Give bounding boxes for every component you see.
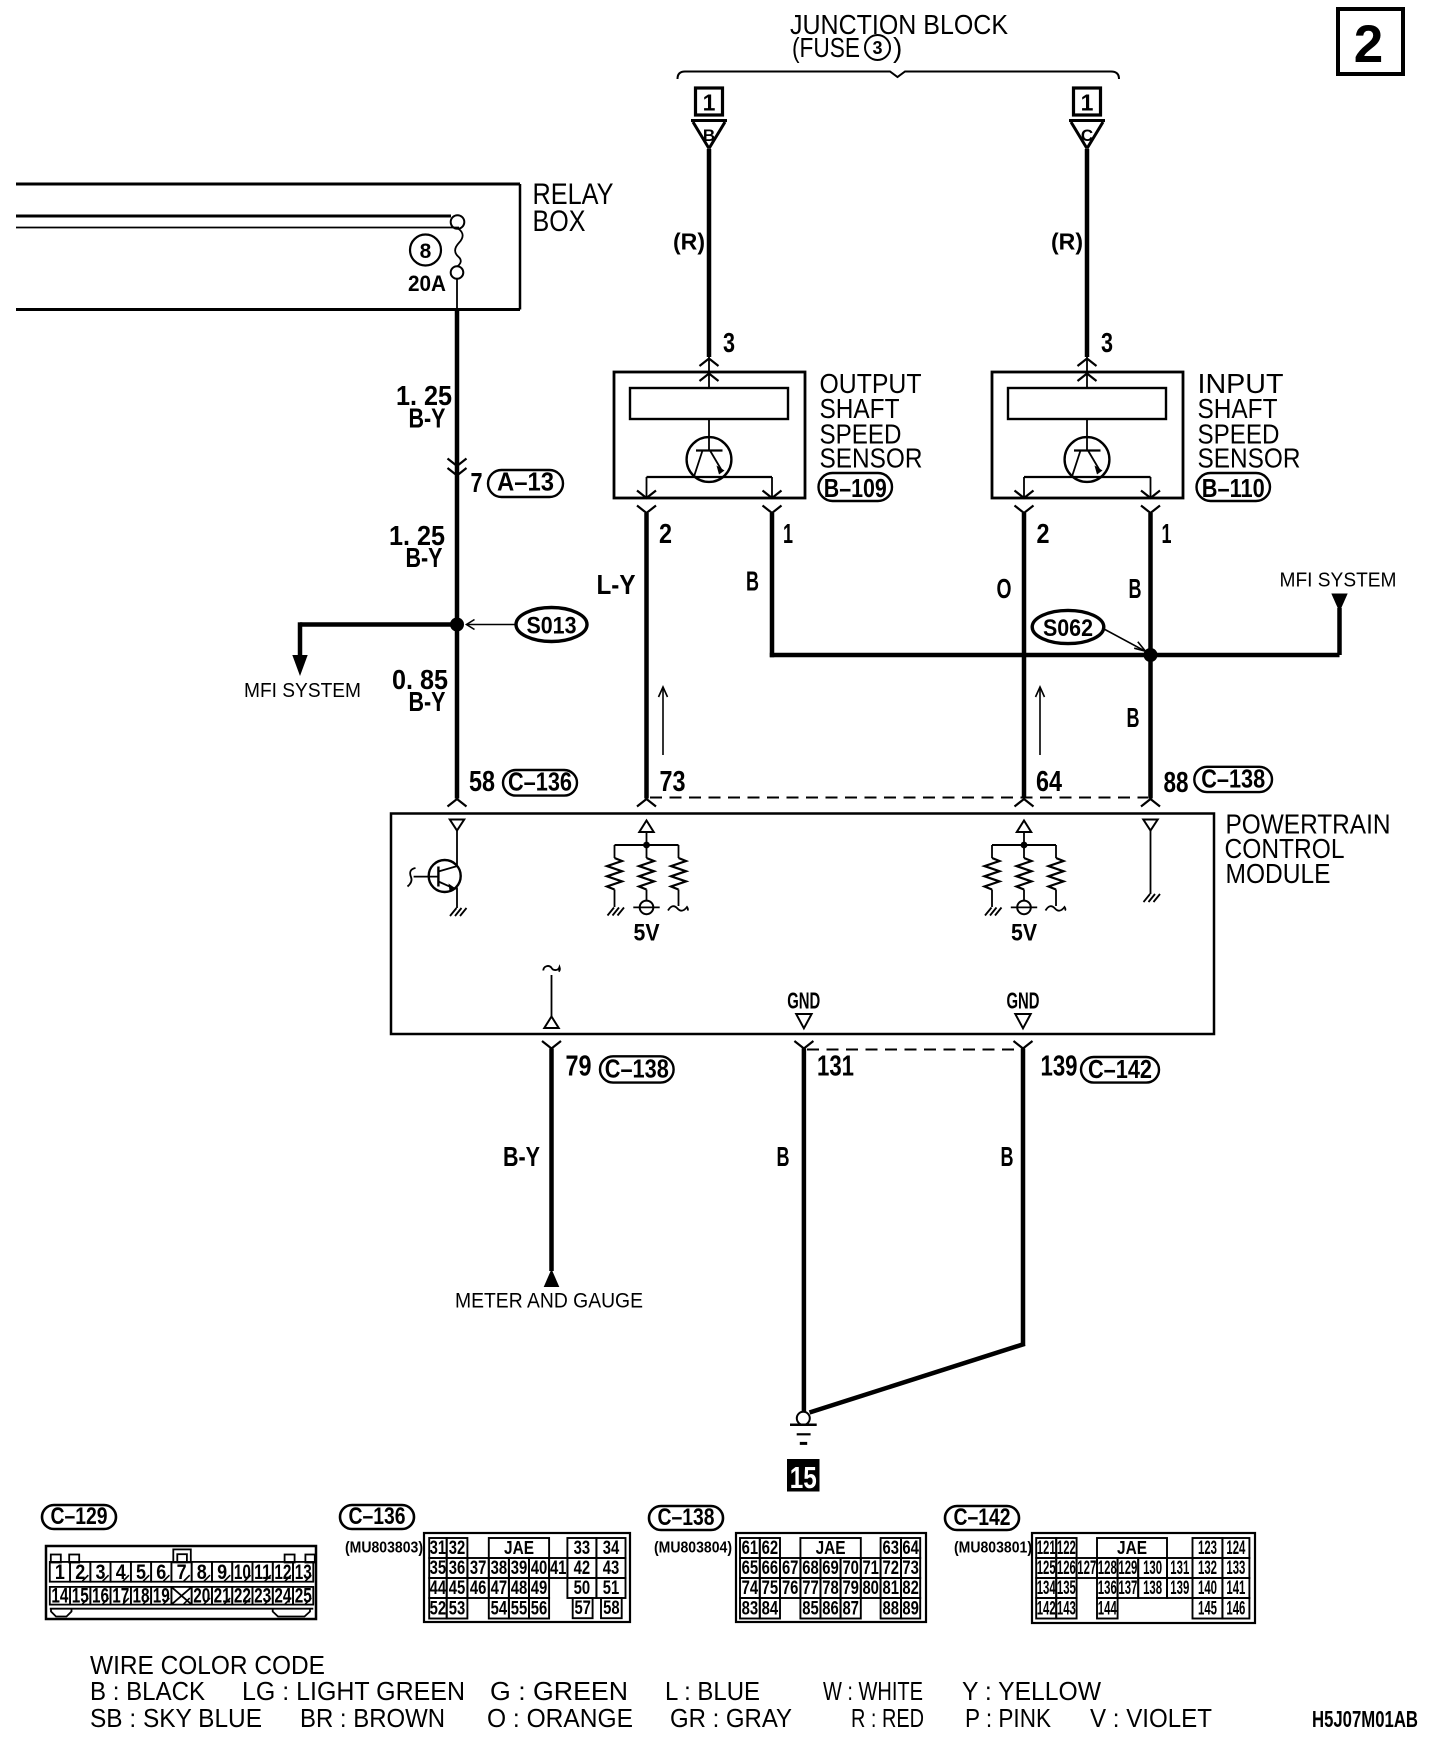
svg-text:17: 17 bbox=[112, 1585, 129, 1608]
connector C-138 label bbox=[649, 1504, 723, 1531]
svg-text:129: 129 bbox=[1118, 1557, 1137, 1579]
wire B pin 139 to ground bbox=[1021, 1049, 1026, 1346]
arrow from S013 to junction bbox=[467, 624, 516, 626]
svg-text:B : BLACK: B : BLACK bbox=[90, 1676, 206, 1706]
relay box bus bar lower bbox=[16, 227, 459, 229]
pin 64 fork bbox=[1015, 799, 1034, 807]
output sensor pin 2 connector forks bbox=[637, 491, 656, 499]
connector label B-109 bbox=[819, 473, 893, 503]
svg-text:C–129: C–129 bbox=[51, 1503, 108, 1530]
svg-text:G : GREEN: G : GREEN bbox=[490, 1676, 628, 1706]
relay box bbox=[16, 184, 520, 310]
diagonal wire pin139 to ground point bbox=[810, 1344, 1025, 1413]
svg-text:138: 138 bbox=[1143, 1577, 1162, 1599]
svg-text:72: 72 bbox=[883, 1557, 900, 1579]
svg-text:23: 23 bbox=[254, 1585, 271, 1608]
svg-text:64: 64 bbox=[902, 1537, 919, 1559]
svg-text:B-Y: B-Y bbox=[409, 686, 446, 717]
svg-text:2: 2 bbox=[1037, 518, 1050, 549]
svg-text:2: 2 bbox=[1354, 15, 1383, 74]
arrow from S062 to junction bbox=[1104, 629, 1144, 651]
input shaft speed sensor box bbox=[992, 372, 1183, 498]
svg-text:137: 137 bbox=[1118, 1577, 1137, 1599]
svg-text:57: 57 bbox=[574, 1597, 591, 1619]
node S062 junction dot bbox=[1144, 648, 1158, 662]
powertrain control module box bbox=[391, 814, 1214, 1035]
svg-text:37: 37 bbox=[470, 1557, 487, 1579]
svg-text:70: 70 bbox=[842, 1557, 859, 1579]
svg-text:B–110: B–110 bbox=[1202, 473, 1265, 503]
svg-text:3: 3 bbox=[723, 327, 735, 358]
wire B pin 131 to ground bbox=[802, 1049, 807, 1413]
svg-text:143: 143 bbox=[1057, 1597, 1076, 1619]
wire color code legend bbox=[90, 1650, 1212, 1733]
svg-text:S062: S062 bbox=[1043, 615, 1093, 642]
svg-text:JAE: JAE bbox=[1117, 1538, 1147, 1558]
svg-text:12: 12 bbox=[274, 1561, 291, 1584]
svg-text:18: 18 bbox=[133, 1585, 150, 1608]
svg-text:(FUSE: (FUSE bbox=[792, 32, 860, 63]
connector label A-13 bbox=[488, 467, 563, 498]
svg-text:BR : BROWN: BR : BROWN bbox=[300, 1703, 445, 1733]
svg-text:3: 3 bbox=[872, 38, 882, 58]
svg-text:B-Y: B-Y bbox=[406, 542, 443, 573]
C-129 connector drawing bbox=[46, 1546, 316, 1619]
arrow to METER AND GAUGE bbox=[544, 1269, 560, 1287]
input sensor label bbox=[1198, 368, 1301, 474]
svg-text:15: 15 bbox=[72, 1585, 89, 1608]
svg-text:GND: GND bbox=[787, 988, 820, 1014]
svg-text:133: 133 bbox=[1226, 1557, 1245, 1579]
svg-text:(R): (R) bbox=[1051, 229, 1083, 255]
svg-text:34: 34 bbox=[603, 1537, 620, 1559]
wire 0.85 B-Y from S013 to PCM pin 58 bbox=[455, 625, 460, 799]
svg-text:69: 69 bbox=[822, 1557, 839, 1579]
PCM pin 88 input triangle bbox=[1143, 820, 1157, 831]
svg-text:55: 55 bbox=[511, 1597, 528, 1619]
svg-text:48: 48 bbox=[511, 1577, 528, 1599]
svg-text:142: 142 bbox=[1037, 1597, 1056, 1619]
svg-text:O : ORANGE: O : ORANGE bbox=[487, 1703, 633, 1733]
svg-text:77: 77 bbox=[802, 1577, 819, 1599]
svg-text:SENSOR: SENSOR bbox=[1198, 443, 1301, 474]
svg-text:44: 44 bbox=[430, 1577, 447, 1599]
svg-text:C–136: C–136 bbox=[508, 767, 572, 797]
chassis ground 15 bbox=[790, 1412, 817, 1444]
dashed connector boundary C-138/C-142 bottom bbox=[807, 1049, 1020, 1051]
svg-text:SB : SKY BLUE: SB : SKY BLUE bbox=[90, 1703, 262, 1733]
svg-text:C: C bbox=[1081, 126, 1093, 145]
svg-text:5V: 5V bbox=[1011, 920, 1037, 947]
svg-text:(MU803801): (MU803801) bbox=[954, 1540, 1032, 1557]
svg-text:32: 32 bbox=[449, 1537, 466, 1559]
svg-text:7: 7 bbox=[471, 467, 483, 498]
svg-text:1: 1 bbox=[1081, 90, 1094, 116]
svg-text:79: 79 bbox=[842, 1577, 859, 1599]
svg-text:JAE: JAE bbox=[816, 1538, 846, 1558]
svg-text:122: 122 bbox=[1057, 1537, 1076, 1559]
svg-text:141: 141 bbox=[1226, 1577, 1245, 1599]
output sensor pin 1 connector forks bbox=[763, 491, 782, 499]
svg-text:83: 83 bbox=[742, 1597, 759, 1619]
svg-text:85: 85 bbox=[802, 1597, 819, 1619]
fuse 8 20A bbox=[408, 215, 464, 296]
svg-text:54: 54 bbox=[491, 1597, 508, 1619]
connector label B-110 bbox=[1197, 473, 1271, 503]
inline connector A-13 chevrons bbox=[448, 459, 467, 467]
svg-text:79: 79 bbox=[566, 1051, 592, 1083]
ground point number 15 bbox=[787, 1459, 820, 1495]
svg-text:8: 8 bbox=[420, 240, 432, 263]
svg-text:89: 89 bbox=[902, 1597, 919, 1619]
svg-text:(MU803803): (MU803803) bbox=[345, 1540, 423, 1557]
wire pin58 to transistor bbox=[456, 831, 458, 867]
svg-text:SENSOR: SENSOR bbox=[820, 443, 923, 474]
svg-text:B: B bbox=[777, 1141, 790, 1172]
svg-text:68: 68 bbox=[802, 1557, 819, 1579]
svg-text:JAE: JAE bbox=[504, 1538, 534, 1558]
connector C-142 label bbox=[945, 1504, 1019, 1531]
svg-text:14: 14 bbox=[51, 1585, 68, 1608]
connector C-136 label bbox=[340, 1503, 414, 1530]
svg-text:73: 73 bbox=[902, 1557, 919, 1579]
svg-text:66: 66 bbox=[762, 1557, 779, 1579]
svg-text:C–142: C–142 bbox=[1088, 1054, 1152, 1084]
svg-text:(R): (R) bbox=[673, 229, 705, 255]
svg-text:132: 132 bbox=[1198, 1557, 1217, 1579]
pin 58 fork bbox=[448, 799, 467, 807]
svg-text:130: 130 bbox=[1143, 1557, 1162, 1579]
pin 79 fork bbox=[542, 1041, 561, 1049]
svg-text:): ) bbox=[893, 32, 902, 63]
svg-text:3: 3 bbox=[1101, 327, 1113, 358]
ground hatch pin58 transistor bbox=[450, 908, 457, 916]
svg-text:42: 42 bbox=[574, 1557, 591, 1579]
PCM label bbox=[1225, 809, 1391, 890]
svg-text:127: 127 bbox=[1077, 1557, 1096, 1579]
svg-text:80: 80 bbox=[862, 1577, 879, 1599]
wire (R) from junction C to input sensor pin 3 bbox=[1085, 149, 1090, 357]
svg-text:C–138: C–138 bbox=[658, 1504, 715, 1531]
svg-text:39: 39 bbox=[511, 1557, 528, 1579]
svg-text:145: 145 bbox=[1198, 1597, 1217, 1619]
svg-text:16: 16 bbox=[92, 1585, 109, 1608]
svg-text:56: 56 bbox=[531, 1597, 548, 1619]
wire B-Y pin 79 to meter and gauge bbox=[549, 1049, 554, 1272]
svg-text:C–142: C–142 bbox=[954, 1504, 1011, 1531]
svg-text:C–138: C–138 bbox=[605, 1054, 669, 1084]
svg-text:121: 121 bbox=[1037, 1537, 1056, 1559]
svg-text:H5J07M01AB: H5J07M01AB bbox=[1312, 1706, 1418, 1732]
svg-text:40: 40 bbox=[531, 1557, 548, 1579]
wire L-Y output sensor pin2 to PCM pin 73 bbox=[644, 513, 649, 799]
svg-text:81: 81 bbox=[883, 1577, 900, 1599]
svg-text:43: 43 bbox=[603, 1557, 620, 1579]
junction block connector 1-B bbox=[691, 88, 727, 149]
svg-text:51: 51 bbox=[603, 1577, 620, 1599]
GND label pin 131 bbox=[787, 988, 820, 1029]
input sensor pin 1 connector forks bbox=[1141, 491, 1160, 499]
svg-text:139: 139 bbox=[1170, 1577, 1189, 1599]
svg-text:15: 15 bbox=[790, 1460, 817, 1495]
svg-text:13: 13 bbox=[295, 1561, 312, 1584]
svg-text:2: 2 bbox=[659, 518, 672, 549]
connector C-142 pin table bbox=[954, 1533, 1255, 1623]
svg-text:1: 1 bbox=[703, 90, 716, 116]
input sensor pin 2 connector forks bbox=[1015, 491, 1034, 499]
PCM pin 79 internal squiggle and triangle bbox=[543, 966, 560, 1028]
svg-text:(MU803804): (MU803804) bbox=[654, 1540, 732, 1557]
GND label pin 139 bbox=[1007, 988, 1040, 1029]
svg-text:71: 71 bbox=[862, 1557, 879, 1579]
svg-text:123: 123 bbox=[1198, 1537, 1217, 1559]
PCM pull resistor network at x=646.5 bbox=[607, 821, 688, 947]
svg-text:10: 10 bbox=[234, 1561, 251, 1584]
page number box 2 bbox=[1338, 9, 1403, 74]
svg-text:46: 46 bbox=[470, 1577, 487, 1599]
svg-text:33: 33 bbox=[574, 1537, 591, 1559]
svg-text:140: 140 bbox=[1198, 1577, 1217, 1599]
wire (R) from junction B to output sensor pin 3 bbox=[707, 149, 712, 357]
svg-text:88: 88 bbox=[883, 1597, 900, 1619]
svg-text:MFI SYSTEM: MFI SYSTEM bbox=[1280, 570, 1397, 592]
svg-text:63: 63 bbox=[883, 1537, 900, 1559]
junction block label bbox=[790, 9, 1008, 63]
svg-text:1: 1 bbox=[55, 1561, 65, 1584]
svg-text:B: B bbox=[703, 126, 715, 145]
signal direction arrow pin 64 bbox=[1039, 688, 1041, 755]
svg-text:GND: GND bbox=[1007, 988, 1040, 1014]
splice S013 bbox=[516, 608, 587, 642]
svg-text:53: 53 bbox=[449, 1597, 466, 1619]
svg-text:135: 135 bbox=[1057, 1577, 1076, 1599]
svg-text:1: 1 bbox=[783, 518, 793, 549]
svg-text:O: O bbox=[997, 573, 1012, 604]
connector label C-136 bbox=[503, 767, 577, 797]
svg-text:65: 65 bbox=[742, 1557, 759, 1579]
svg-text:METER AND GAUGE: METER AND GAUGE bbox=[455, 1290, 643, 1313]
svg-text:50: 50 bbox=[574, 1577, 591, 1599]
svg-text:LG : LIGHT GREEN: LG : LIGHT GREEN bbox=[242, 1676, 465, 1706]
svg-text:B: B bbox=[746, 566, 759, 597]
svg-text:MODULE: MODULE bbox=[1226, 858, 1331, 889]
ground hatch pin88 bbox=[1144, 894, 1151, 902]
svg-text:11: 11 bbox=[254, 1561, 271, 1584]
svg-text:5V: 5V bbox=[634, 920, 660, 947]
svg-text:P : PINK: P : PINK bbox=[965, 1703, 1052, 1733]
svg-text:75: 75 bbox=[762, 1577, 779, 1599]
node S013 junction dot bbox=[450, 618, 464, 632]
svg-text:134: 134 bbox=[1037, 1577, 1056, 1599]
svg-text:21: 21 bbox=[214, 1585, 231, 1608]
wire O input sensor pin2 to PCM pin 64 bbox=[1022, 513, 1027, 799]
svg-text:31: 31 bbox=[430, 1537, 447, 1559]
svg-text:38: 38 bbox=[491, 1557, 508, 1579]
svg-text:A–13: A–13 bbox=[497, 467, 554, 497]
svg-text:78: 78 bbox=[822, 1577, 839, 1599]
svg-text:35: 35 bbox=[430, 1557, 447, 1579]
svg-text:87: 87 bbox=[842, 1597, 859, 1619]
PCM pin 58 input triangle bbox=[450, 820, 464, 831]
svg-text:52: 52 bbox=[430, 1597, 447, 1619]
arrow to MFI SYSTEM right bbox=[1331, 594, 1347, 613]
svg-text:86: 86 bbox=[822, 1597, 839, 1619]
svg-text:B: B bbox=[1001, 1141, 1014, 1172]
svg-text:88: 88 bbox=[1164, 767, 1189, 799]
output sensor label bbox=[820, 368, 923, 474]
svg-text:C–138: C–138 bbox=[1201, 764, 1265, 794]
pin 88 fork bbox=[1141, 799, 1160, 807]
svg-text:58: 58 bbox=[603, 1597, 620, 1619]
wire 1.25 B-Y from fuse to S013 junction bbox=[455, 310, 460, 625]
svg-text:84: 84 bbox=[762, 1597, 779, 1619]
svg-text:1: 1 bbox=[1162, 518, 1172, 549]
svg-text:36: 36 bbox=[449, 1557, 466, 1579]
dashed connector boundary C-136/C-138 top bbox=[650, 797, 1148, 799]
transistor Q (PCM internal) bbox=[408, 860, 461, 892]
svg-text:B: B bbox=[1127, 702, 1140, 733]
svg-text:139: 139 bbox=[1041, 1051, 1078, 1083]
pin 73 fork bbox=[637, 799, 656, 807]
connector label C-138 bottom bbox=[600, 1054, 674, 1084]
svg-text:R : RED: R : RED bbox=[851, 1703, 924, 1733]
svg-text:41: 41 bbox=[550, 1557, 567, 1579]
svg-text:67: 67 bbox=[782, 1557, 799, 1579]
svg-text:146: 146 bbox=[1226, 1597, 1245, 1619]
svg-text:58: 58 bbox=[469, 766, 495, 798]
svg-text:B: B bbox=[1129, 573, 1142, 604]
svg-text:128: 128 bbox=[1098, 1557, 1117, 1579]
splice S062 bbox=[1032, 610, 1104, 643]
svg-text:144: 144 bbox=[1098, 1597, 1117, 1619]
svg-text:22: 22 bbox=[234, 1585, 251, 1608]
wire to MFI SYSTEM left bbox=[300, 622, 457, 627]
transistor emitter to ground bbox=[456, 888, 458, 909]
svg-text:82: 82 bbox=[902, 1577, 919, 1599]
PCM pull resistor network at x=1024 bbox=[985, 821, 1066, 947]
svg-text:L : BLUE: L : BLUE bbox=[665, 1676, 760, 1706]
svg-text:124: 124 bbox=[1226, 1537, 1245, 1559]
svg-text:MFI SYSTEM: MFI SYSTEM bbox=[244, 680, 361, 702]
svg-text:45: 45 bbox=[449, 1577, 466, 1599]
svg-text:L-Y: L-Y bbox=[597, 569, 636, 600]
svg-text:20: 20 bbox=[193, 1585, 210, 1608]
junction block connector 1-C bbox=[1069, 88, 1105, 149]
svg-text:20A: 20A bbox=[408, 271, 446, 296]
fuse lead inside relay box bbox=[456, 279, 458, 310]
svg-text:61: 61 bbox=[742, 1537, 759, 1559]
svg-text:125: 125 bbox=[1037, 1557, 1056, 1579]
svg-text:B-Y: B-Y bbox=[503, 1141, 540, 1172]
svg-text:B-Y: B-Y bbox=[409, 403, 446, 434]
svg-text:49: 49 bbox=[531, 1577, 548, 1599]
arrow to MFI SYSTEM left bbox=[292, 655, 307, 676]
svg-text:Y : YELLOW: Y : YELLOW bbox=[962, 1676, 1101, 1706]
svg-text:S013: S013 bbox=[527, 613, 577, 640]
svg-text:C–136: C–136 bbox=[349, 1503, 406, 1530]
svg-text:BOX: BOX bbox=[533, 205, 586, 238]
output shaft speed sensor box bbox=[614, 372, 805, 498]
signal direction arrow pin 73 bbox=[662, 688, 664, 755]
svg-text:62: 62 bbox=[762, 1537, 779, 1559]
pin 139 fork bbox=[1014, 1041, 1033, 1049]
junction bus wire to MFI SYSTEM right bbox=[770, 653, 1340, 658]
svg-text:V : VIOLET: V : VIOLET bbox=[1090, 1703, 1212, 1733]
wire B input sensor pin1 through S062 junction to PCM pin 88 bbox=[1148, 513, 1153, 799]
wire pin88 to ground bbox=[1150, 831, 1152, 895]
svg-text:131: 131 bbox=[1170, 1557, 1189, 1579]
relay box bus bar upper bbox=[16, 215, 451, 218]
svg-text:47: 47 bbox=[491, 1577, 508, 1599]
svg-text:B–109: B–109 bbox=[824, 473, 887, 503]
svg-text:GR : GRAY: GR : GRAY bbox=[670, 1703, 792, 1733]
wire B output sensor pin1 to junction bus bbox=[770, 513, 775, 657]
connector C-136 pin table bbox=[345, 1533, 630, 1622]
svg-text:126: 126 bbox=[1057, 1557, 1076, 1579]
svg-text:25: 25 bbox=[295, 1585, 312, 1608]
svg-text:64: 64 bbox=[1036, 766, 1062, 798]
svg-text:W : WHITE: W : WHITE bbox=[823, 1676, 923, 1706]
svg-text:19: 19 bbox=[153, 1585, 170, 1608]
svg-text:73: 73 bbox=[660, 766, 686, 798]
pin 131 fork bbox=[794, 1041, 813, 1049]
connector C-138 pin table bbox=[654, 1533, 926, 1622]
connector label C-138 top bbox=[1194, 764, 1272, 794]
svg-text:76: 76 bbox=[782, 1577, 799, 1599]
svg-text:131: 131 bbox=[817, 1051, 854, 1083]
connector C-129 label bbox=[42, 1503, 116, 1530]
svg-text:136: 136 bbox=[1098, 1577, 1117, 1599]
svg-text:74: 74 bbox=[742, 1577, 759, 1599]
fuse 3 circled bbox=[865, 32, 902, 63]
svg-text:24: 24 bbox=[274, 1585, 291, 1608]
junction block brace bbox=[678, 72, 1120, 80]
connector label C-142 bbox=[1081, 1054, 1159, 1084]
